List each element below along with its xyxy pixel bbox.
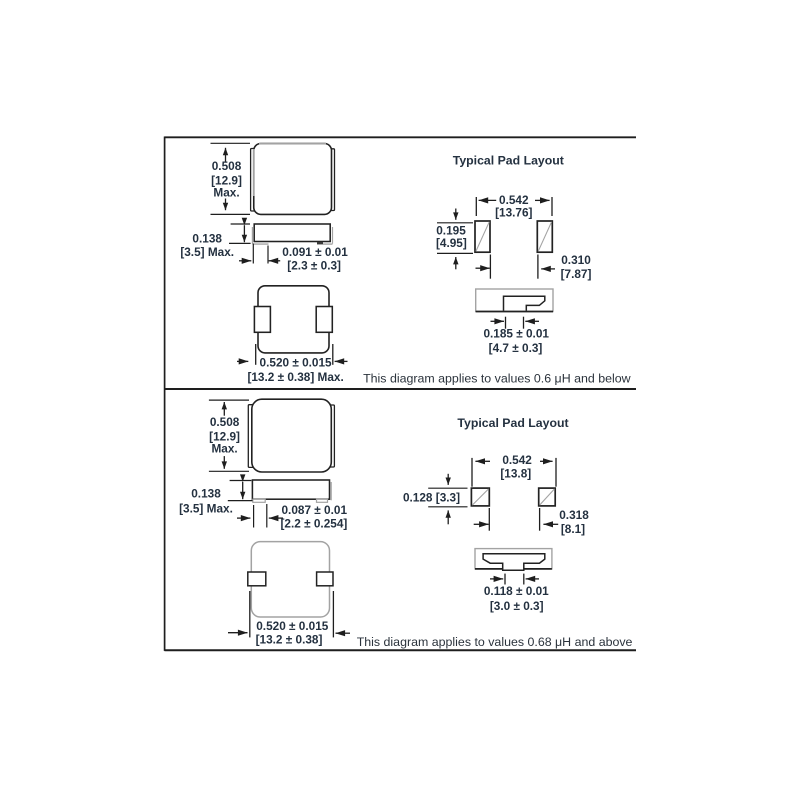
svg-text:[13.2 ± 0.38] Max.: [13.2 ± 0.38] Max. xyxy=(247,370,343,384)
svg-text:0.520 ± 0.015: 0.520 ± 0.015 xyxy=(260,355,333,369)
svg-text:0.508: 0.508 xyxy=(210,415,240,429)
svg-text:0.138: 0.138 xyxy=(191,486,221,500)
svg-text:0.087 ± 0.01: 0.087 ± 0.01 xyxy=(282,503,348,517)
svg-text:[8.1]: [8.1] xyxy=(561,522,585,536)
svg-text:0.091 ± 0.01: 0.091 ± 0.01 xyxy=(282,245,348,259)
svg-text:[13.76]: [13.76] xyxy=(495,206,532,220)
svg-text:[7.87]: [7.87] xyxy=(561,267,592,281)
svg-text:0.318: 0.318 xyxy=(559,508,589,522)
svg-text:0.542: 0.542 xyxy=(502,453,532,467)
svg-text:0.128 [3.3]: 0.128 [3.3] xyxy=(403,491,460,505)
svg-text:[3.5] Max.: [3.5] Max. xyxy=(180,245,234,259)
svg-text:Typical Pad Layout: Typical Pad Layout xyxy=(453,154,564,168)
svg-text:0.310: 0.310 xyxy=(561,253,591,267)
svg-text:[3.5] Max.: [3.5] Max. xyxy=(179,502,233,516)
svg-text:[2.2 ± 0.254]: [2.2 ± 0.254] xyxy=(281,516,348,530)
svg-text:[4.95]: [4.95] xyxy=(436,236,467,250)
svg-text:[13.8]: [13.8] xyxy=(500,466,531,480)
svg-text:0.520 ± 0.015: 0.520 ± 0.015 xyxy=(256,619,329,633)
svg-text:[3.0 ± 0.3]: [3.0 ± 0.3] xyxy=(490,599,544,613)
svg-text:Typical Pad Layout: Typical Pad Layout xyxy=(457,416,568,430)
svg-text:[4.7 ± 0.3]: [4.7 ± 0.3] xyxy=(489,341,543,355)
svg-text:Max.: Max. xyxy=(211,442,237,456)
svg-text:0.508: 0.508 xyxy=(212,159,242,173)
svg-text:[2.3 ± 0.3]: [2.3 ± 0.3] xyxy=(287,258,341,272)
svg-text:Max.: Max. xyxy=(213,186,239,200)
svg-text:This diagram applies to values: This diagram applies to values 0.68 μH a… xyxy=(357,635,633,649)
svg-text:0.118 ± 0.01: 0.118 ± 0.01 xyxy=(484,584,549,598)
svg-text:This diagram applies to values: This diagram applies to values 0.6 μH an… xyxy=(363,372,631,386)
svg-text:[13.2 ± 0.38]: [13.2 ± 0.38] xyxy=(256,632,323,646)
svg-text:0.138: 0.138 xyxy=(192,231,222,245)
svg-text:0.185 ± 0.01: 0.185 ± 0.01 xyxy=(483,327,549,341)
